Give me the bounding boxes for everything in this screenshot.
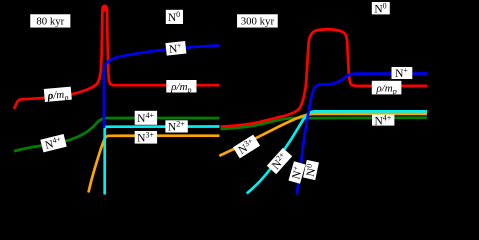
label N2+ rotated right panel: [266, 147, 292, 174]
label N+ right panel: [392, 66, 413, 80]
label rho/mp right panel: [372, 81, 402, 96]
label N4+ on green curve left: [40, 134, 67, 153]
label N2+ box left panel: [165, 119, 187, 133]
curve N+ right panel (blue): [297, 74, 427, 195]
curve N4+ right panel (green): [221, 118, 428, 129]
label box 80 kyr: [30, 14, 71, 28]
label rho/mp left (on rising red curve): [44, 87, 72, 104]
label N0 right panel top: [372, 1, 390, 15]
curve N2+ left panel (cyan): [105, 127, 220, 195]
label rho/mp left panel right side: [166, 80, 196, 95]
svg-text:300 kyr: 300 kyr: [241, 15, 275, 27]
curve rho/mp left panel (red): [14, 6, 220, 109]
label N0 left panel: [166, 10, 183, 24]
label N3+ rotated right panel: [233, 134, 261, 159]
label N+ rotated right panel: [288, 161, 307, 184]
label N4+ box left panel: [135, 111, 157, 125]
label N0 rotated right panel: [302, 160, 319, 181]
curve N3+ left panel (orange): [89, 136, 220, 193]
label N3+ box left panel: [135, 130, 157, 144]
svg-text:80 kyr: 80 kyr: [36, 15, 64, 27]
label N4+ box right panel: [372, 113, 394, 127]
curve rho/mp right panel (red): [221, 29, 428, 126]
label box 300 kyr: [237, 14, 279, 28]
curve N3+ right panel (orange): [219, 114, 427, 156]
label N+ left panel: [165, 40, 186, 56]
curve N4+ left panel (green): [14, 118, 220, 151]
curve N2+ right panel (cyan): [247, 111, 427, 193]
spike top cap (red): [101, 5, 108, 12]
curve N+ left panel (blue): [104, 45, 220, 128]
